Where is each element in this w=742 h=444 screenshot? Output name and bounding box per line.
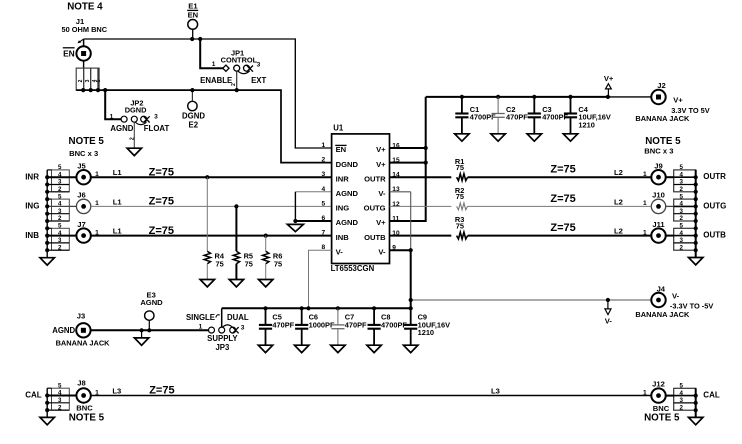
svg-text:2: 2 — [58, 244, 62, 251]
junctions J12 shield bus — [694, 394, 698, 398]
svg-text:2: 2 — [58, 186, 62, 193]
junction C9/V- rail — [409, 306, 413, 310]
svg-text:4: 4 — [680, 230, 684, 237]
svg-text:2: 2 — [231, 83, 237, 86]
junction C4/V+ rail — [568, 95, 572, 99]
net label EN (at J1) — [63, 48, 75, 59]
svg-text:V+: V+ — [376, 145, 386, 154]
svg-text:OUTR: OUTR — [703, 172, 726, 181]
capacitor C8 4700PF — [368, 308, 408, 345]
svg-text:Z=75: Z=75 — [149, 166, 174, 178]
svg-text:L3: L3 — [112, 386, 121, 395]
svg-text:5: 5 — [680, 383, 684, 390]
resistor R5 75 — [233, 206, 253, 279]
svg-text:5: 5 — [680, 164, 684, 171]
svg-text:6: 6 — [322, 215, 326, 222]
power symbol V+ — [604, 74, 614, 97]
wire DGND rail to JP2 pin 1 — [105, 90, 121, 119]
wire V- to J4 — [411, 299, 652, 301]
svg-text:NOTE 5: NOTE 5 — [645, 136, 681, 147]
junction pin9/V- riser — [409, 248, 413, 252]
capacitor C4 10UF,16V — [564, 97, 611, 134]
svg-text:OUTB: OUTB — [364, 233, 386, 242]
svg-text:OUTR: OUTR — [364, 174, 386, 183]
svg-text:AGND: AGND — [52, 326, 75, 335]
wire V- rail (C5-C9) — [222, 307, 411, 309]
ground (JP2 pin 2) — [127, 148, 141, 155]
svg-text:1000PF: 1000PF — [309, 320, 335, 329]
svg-text:3: 3 — [680, 237, 684, 244]
svg-text:SUPPLY: SUPPLY — [207, 334, 238, 343]
BNC connector J5 — [47, 162, 91, 185]
wire J3 to JP3 pin 1 — [91, 329, 209, 331]
ground (J8 shield bus) — [40, 417, 54, 424]
wire V+ rail — [426, 96, 608, 98]
capacitor C6 1000PF — [295, 308, 335, 345]
svg-text:3: 3 — [58, 208, 62, 215]
BNC connector J1 — [76, 39, 90, 68]
svg-text:OUTB: OUTB — [703, 231, 726, 240]
capacitor C3 4700PF — [528, 97, 569, 134]
svg-text:3: 3 — [58, 397, 62, 404]
svg-text:5: 5 — [58, 382, 62, 389]
svg-text:L2: L2 — [614, 168, 623, 177]
wire V- riser (upper) — [410, 192, 412, 250]
svg-text:1210: 1210 — [578, 121, 594, 130]
svg-text:BNC x 3: BNC x 3 — [69, 149, 98, 158]
junction R4/INR — [205, 175, 209, 179]
capacitor C2 470PF — [492, 97, 529, 134]
svg-text:5: 5 — [680, 223, 684, 230]
svg-text:4: 4 — [680, 201, 684, 208]
svg-text:OUTG: OUTG — [364, 204, 386, 213]
svg-text:2: 2 — [129, 137, 135, 140]
svg-text:NOTE 5: NOTE 5 — [69, 412, 105, 423]
svg-text:L2: L2 — [614, 197, 623, 206]
svg-text:2: 2 — [680, 186, 684, 193]
ground (C6) — [295, 345, 309, 352]
junction C2/V+ rail — [496, 95, 500, 99]
junction C1/V+ rail — [460, 95, 464, 99]
svg-text:NOTE 5: NOTE 5 — [69, 136, 105, 147]
BNC connector J7 — [47, 220, 91, 243]
junction V+ symbol/rail — [606, 95, 610, 99]
BNC connector J12 — [651, 380, 673, 403]
svg-text:470PF: 470PF — [345, 320, 367, 329]
svg-text:AGND: AGND — [336, 189, 359, 198]
svg-text:AGND: AGND — [110, 124, 133, 133]
wire right shield bus — [695, 170, 697, 258]
svg-text:Z=75: Z=75 — [550, 164, 575, 176]
junction E1/EN rail — [190, 37, 194, 41]
svg-text:J10: J10 — [652, 191, 665, 200]
svg-text:NOTE 5: NOTE 5 — [644, 412, 680, 423]
svg-text:J2: J2 — [657, 81, 665, 90]
U1 pin 1 label EN — [335, 145, 346, 154]
svg-text:7: 7 — [322, 230, 326, 237]
svg-text:ING: ING — [336, 204, 350, 213]
junctions right shield bus — [694, 175, 698, 179]
ground (right shield bus) — [689, 258, 703, 265]
junction C5/V- rail — [263, 306, 267, 310]
svg-text:AGND: AGND — [336, 218, 359, 227]
svg-text:75: 75 — [216, 259, 224, 268]
ground (R5) — [229, 280, 243, 287]
ground (C7) — [331, 345, 345, 352]
power symbol V- — [605, 300, 613, 326]
ground (C2) — [491, 134, 505, 141]
svg-text:SINGLE: SINGLE — [186, 313, 215, 322]
wire U1 pin 11 / V+ riser — [390, 97, 426, 221]
svg-text:V-: V- — [672, 291, 680, 300]
svg-text:3: 3 — [154, 113, 158, 120]
svg-text:3: 3 — [680, 179, 684, 186]
svg-text:1210: 1210 — [418, 328, 434, 337]
wire DGND rail (to U1 pin 2) — [76, 90, 331, 163]
ground (C3) — [527, 134, 541, 141]
wire JP1 pin 1 to EN rail — [200, 39, 223, 68]
banana jack J3 — [76, 311, 90, 337]
svg-text:LT6553CGN: LT6553CGN — [331, 264, 375, 273]
svg-text:V+: V+ — [376, 218, 386, 227]
svg-text:BANANA JACK: BANANA JACK — [635, 310, 690, 319]
svg-text:2: 2 — [680, 244, 684, 251]
svg-text:Z=75: Z=75 — [149, 385, 174, 397]
junction AGND — [293, 219, 297, 223]
svg-text:INR: INR — [336, 174, 350, 183]
junction pin8 riser/V- rail — [306, 306, 310, 310]
wire JP2 pin 2 to ground — [133, 122, 135, 148]
svg-text:L3: L3 — [491, 386, 500, 395]
ground (C1) — [455, 134, 469, 141]
svg-text:EN: EN — [336, 145, 347, 154]
svg-text:J8: J8 — [77, 379, 85, 388]
ground (J12 shield bus) — [689, 417, 703, 424]
svg-text:3: 3 — [241, 324, 245, 331]
svg-text:4: 4 — [680, 171, 684, 178]
svg-text:75: 75 — [456, 163, 464, 172]
svg-text:V-: V- — [378, 189, 386, 198]
capacitor C7 470PF — [331, 308, 367, 345]
svg-text:ENABLE: ENABLE — [200, 76, 232, 85]
svg-text:OUTG: OUTG — [703, 201, 726, 210]
wire ING (J6 to U1 pin 5) — [91, 205, 332, 207]
svg-text:2: 2 — [58, 215, 62, 222]
ground (left shield bus) — [40, 258, 54, 265]
svg-text:DGND: DGND — [125, 106, 147, 115]
svg-text:4700PF: 4700PF — [381, 320, 407, 329]
junction pin15/V+ riser — [424, 161, 428, 165]
svg-text:AGND: AGND — [140, 298, 163, 307]
svg-text:4: 4 — [680, 390, 684, 397]
wire OUTB (U1 to R3) — [390, 235, 452, 237]
svg-text:BANANA JACK: BANANA JACK — [635, 114, 690, 123]
junction JP1 pin2 / DGND rail — [235, 88, 239, 92]
svg-text:3: 3 — [58, 237, 62, 244]
svg-text:INR: INR — [25, 172, 39, 181]
svg-text:BANANA JACK: BANANA JACK — [56, 339, 111, 348]
pin 1 arrow of J1 — [78, 39, 84, 43]
svg-text:BNC x 3: BNC x 3 — [644, 147, 673, 156]
BNC connector J8 — [47, 379, 91, 403]
svg-text:V-: V- — [336, 247, 344, 256]
svg-text:FLOAT: FLOAT — [144, 124, 170, 133]
svg-text:Z=75: Z=75 — [550, 193, 575, 205]
svg-text:V+: V+ — [673, 95, 683, 104]
svg-text:J12: J12 — [652, 380, 665, 389]
svg-text:1: 1 — [322, 142, 326, 149]
svg-text:CAL: CAL — [25, 391, 42, 400]
junction C3/V+ rail — [532, 95, 536, 99]
svg-text:3: 3 — [680, 208, 684, 215]
svg-text:INB: INB — [336, 233, 350, 242]
ground (J3 wire) — [134, 330, 148, 345]
svg-text:2: 2 — [680, 404, 684, 411]
svg-text:Z=75: Z=75 — [149, 196, 174, 208]
jumper JP3 SUPPLY — [186, 313, 249, 352]
capacitor C9 10UF,16V — [404, 308, 450, 345]
J1 shield pins 2-5 — [76, 68, 102, 90]
svg-text:EN: EN — [63, 49, 75, 59]
wire OUTR (U1 to R1) — [390, 176, 452, 178]
wire INR (J5 to U1 pin 3) — [91, 176, 332, 178]
svg-text:2: 2 — [680, 215, 684, 222]
junction R5/ING — [234, 204, 238, 208]
junction ground/J3 wire — [140, 328, 144, 332]
svg-text:5: 5 — [680, 193, 684, 200]
wire U1 pin 9 to V- riser — [390, 249, 411, 251]
test point E2 — [182, 90, 205, 130]
junctions J1 shield to DGND rail — [81, 88, 85, 92]
resistor R6 75 — [263, 236, 283, 280]
junction JP1 riser / EN rail — [198, 37, 202, 41]
svg-text:5: 5 — [58, 223, 62, 230]
resistor R3 75 — [455, 215, 468, 239]
svg-text:5: 5 — [58, 193, 62, 200]
svg-text:2: 2 — [58, 404, 62, 411]
wire J12 shield bus — [695, 388, 697, 417]
resistor R2 75 — [455, 186, 468, 210]
resistor R4 75 — [204, 177, 225, 279]
svg-text:E1: E1 — [188, 2, 198, 11]
svg-text:BNC: BNC — [76, 404, 93, 413]
svg-text:L1: L1 — [113, 227, 123, 236]
wire EN net (J1 to U1 pin 1) — [84, 39, 332, 148]
resistor R1 75 — [455, 157, 468, 181]
banana jack J4 — [651, 284, 665, 307]
wire OUTG (R2 to BNC) — [468, 205, 652, 207]
svg-text:V+: V+ — [376, 160, 386, 169]
svg-text:E2: E2 — [189, 121, 199, 130]
junction E2 / DGND rail — [190, 88, 194, 92]
jumper JP1 CONTROL — [200, 48, 266, 85]
svg-text:DGND: DGND — [182, 111, 205, 120]
ground (R6) — [259, 280, 273, 287]
wire U1 pin 8 to V- rail — [309, 250, 332, 308]
svg-text:U1: U1 — [333, 124, 344, 133]
connector J11 shield pins — [674, 223, 696, 252]
junction JP2 drop / DGND rail — [103, 88, 107, 92]
svg-text:J3: J3 — [77, 311, 85, 320]
wire left shield bus — [46, 170, 48, 258]
svg-text:INB: INB — [25, 231, 39, 240]
wire J8 shield bus — [46, 388, 48, 417]
svg-text:5: 5 — [58, 164, 62, 171]
connector J8 shield pins — [47, 382, 69, 411]
svg-text:EXT: EXT — [251, 76, 266, 85]
svg-text:V-: V- — [605, 317, 613, 326]
svg-text:L2: L2 — [614, 227, 623, 236]
junction V- branch — [409, 298, 413, 302]
test point E1 — [187, 2, 198, 39]
svg-text:Z=75: Z=75 — [149, 225, 174, 237]
wire OUTG (U1 to R2) — [390, 205, 452, 207]
svg-text:3: 3 — [257, 62, 261, 69]
junctions left shield bus — [45, 175, 49, 179]
connector J12 shield pins — [674, 383, 696, 412]
ground (R4) — [200, 280, 214, 287]
BNC connector J10 — [651, 191, 673, 214]
svg-text:CAL: CAL — [703, 391, 720, 400]
svg-text:V-: V- — [378, 247, 386, 256]
wire OUTR (R1 to BNC) — [468, 176, 652, 178]
connector J10 shield pins — [674, 193, 696, 222]
svg-text:75: 75 — [456, 221, 464, 230]
ground (C4) — [563, 134, 577, 141]
svg-text:75: 75 — [245, 259, 253, 268]
capacitor C5 470PF — [259, 308, 295, 345]
wire U1 pin 15 to V+ riser — [390, 162, 426, 164]
svg-text:50 OHM BNC: 50 OHM BNC — [62, 25, 108, 34]
ground (C8) — [367, 345, 381, 352]
connector J7 shield pins — [47, 223, 69, 252]
wire JP3 pin 2 to V- rail — [221, 308, 223, 327]
svg-text:4: 4 — [322, 186, 326, 193]
svg-text:1: 1 — [212, 61, 216, 68]
ground (C9) — [404, 345, 418, 352]
svg-text:DUAL: DUAL — [227, 313, 249, 322]
svg-text:3: 3 — [322, 171, 326, 178]
ground (AGND pins) — [287, 224, 303, 231]
connector J1 label — [62, 17, 108, 34]
svg-text:470PF: 470PF — [506, 113, 528, 122]
svg-text:3: 3 — [58, 179, 62, 186]
wire V- riser (lower) — [410, 250, 412, 308]
junction C8/V- rail — [372, 306, 376, 310]
BNC connector J6 — [47, 191, 91, 214]
BNC connector J9 — [651, 162, 673, 185]
junction R6/INB — [264, 234, 268, 238]
svg-text:NOTE 4: NOTE 4 — [67, 2, 103, 13]
op-amp U1 LT6553CGN — [332, 134, 390, 264]
jumper JP2 DGND — [110, 99, 170, 134]
svg-text:V+: V+ — [604, 74, 614, 83]
svg-text:ING: ING — [25, 202, 39, 211]
svg-text:L1: L1 — [113, 197, 123, 206]
junction pin16/V+ riser — [424, 146, 428, 150]
wire U1 pin 16 to V+ riser — [390, 147, 426, 149]
svg-text:EN: EN — [188, 11, 199, 20]
BNC connector J11 — [651, 220, 673, 243]
wire AGND net (U1 pins 4,6) — [295, 192, 331, 221]
junction C7/V- rail — [336, 306, 340, 310]
connector J6 shield pins — [47, 193, 69, 222]
junction V- symbol — [606, 298, 610, 302]
ground (C5) — [258, 345, 272, 352]
junction C6/V- rail — [300, 306, 304, 310]
svg-text:2: 2 — [78, 79, 84, 82]
wire INB (J7 to U1 pin 7) — [91, 235, 332, 237]
svg-text:2: 2 — [322, 157, 326, 164]
banana jack J2 — [651, 81, 665, 104]
connector J9 shield pins — [674, 164, 696, 193]
svg-text:3: 3 — [85, 79, 91, 82]
capacitor C1 4700PF — [455, 97, 496, 134]
svg-text:5: 5 — [96, 79, 102, 82]
junctions J8 shield bus — [45, 393, 49, 397]
wire OUTB (R3 to BNC) — [468, 235, 652, 237]
svg-text:470PF: 470PF — [272, 320, 294, 329]
svg-text:L1: L1 — [113, 168, 123, 177]
svg-text:CONTROL: CONTROL — [221, 55, 258, 64]
svg-text:1: 1 — [643, 389, 647, 396]
connector J5 shield pins — [47, 164, 69, 193]
svg-text:3: 3 — [680, 397, 684, 404]
svg-text:5: 5 — [322, 200, 326, 207]
junction E3/J3 wire — [147, 328, 151, 332]
test point E3 — [140, 291, 163, 331]
svg-text:75: 75 — [274, 259, 282, 268]
svg-text:DGND: DGND — [336, 160, 359, 169]
svg-text:75: 75 — [456, 192, 464, 201]
wire U1 pin 13 to V- riser — [390, 191, 411, 193]
svg-text:JP3: JP3 — [215, 343, 230, 352]
wire CAL (J8 to J12) — [91, 395, 652, 397]
svg-text:J6: J6 — [77, 191, 85, 200]
wire JP1 pin 2 to DGND rail — [236, 71, 238, 90]
svg-text:Z=75: Z=75 — [550, 222, 575, 234]
